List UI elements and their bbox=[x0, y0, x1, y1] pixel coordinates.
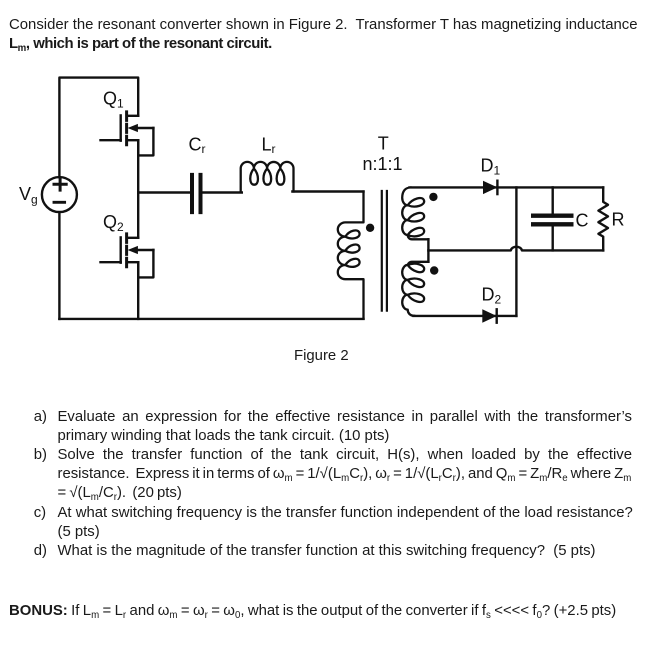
wire: top rail from Vg+ to Q1 drain bbox=[59, 78, 138, 178]
diode D1 bbox=[483, 181, 497, 194]
svg-text:R: R bbox=[612, 210, 625, 230]
transistor Q2 bbox=[101, 234, 154, 278]
transformer T primary winding bbox=[338, 192, 364, 319]
svg-text:T: T bbox=[378, 134, 389, 154]
wire: Q2 source to bottom rail bbox=[137, 262, 139, 319]
transistor Q1 bbox=[101, 112, 154, 155]
svg-text:D1: D1 bbox=[481, 155, 501, 177]
problem statement line 1 bbox=[9, 16, 638, 35]
capacitor Cr bbox=[192, 175, 201, 212]
item d bbox=[34, 542, 47, 561]
wire: bottom rail bbox=[59, 318, 363, 320]
problem statement line 2 bbox=[9, 35, 272, 54]
primary polarity dot bbox=[366, 224, 374, 232]
diode D2 bbox=[482, 309, 496, 322]
svg-text:Cr: Cr bbox=[189, 135, 206, 157]
item c bbox=[34, 504, 46, 523]
svg-text:Lr: Lr bbox=[262, 135, 276, 157]
figure caption bbox=[294, 347, 349, 366]
transformer secondary winding 2 (bottom) bbox=[402, 262, 428, 316]
wire: secondary 2 to D2 bbox=[414, 315, 517, 317]
secondary 1 polarity dot bbox=[429, 193, 437, 201]
wire: midpoint node to Cr bbox=[138, 191, 190, 193]
svg-text:Q1: Q1 bbox=[103, 88, 124, 110]
resistor R bbox=[598, 187, 608, 250]
transformer core bbox=[382, 191, 387, 311]
item a bbox=[34, 408, 47, 427]
svg-text:n:1:1: n:1:1 bbox=[363, 154, 403, 174]
wire: secondary spine / center tap junction bbox=[427, 239, 429, 261]
wire: top output rail (secondary 1 to D1 to output +) bbox=[410, 186, 604, 188]
bonus line bbox=[9, 602, 616, 621]
item b bbox=[34, 446, 47, 465]
svg-text:C: C bbox=[576, 210, 589, 230]
wire: Vg- down to bottom rail bbox=[58, 212, 60, 319]
inductor Lr bbox=[241, 162, 294, 192]
wire: center tap to output - (with hop over D2 wire) bbox=[428, 247, 603, 251]
secondary 2 polarity dot bbox=[430, 266, 438, 274]
transformer secondary winding 1 (top) bbox=[402, 187, 428, 239]
svg-text:Q2: Q2 bbox=[103, 212, 124, 234]
wire: D2 cathode up to output + bbox=[515, 187, 517, 316]
wire: Lr to transformer primary bbox=[292, 190, 363, 192]
capacitor C bbox=[552, 187, 554, 213]
svg-text:Vg: Vg bbox=[19, 184, 38, 206]
voltage source Vg bbox=[42, 177, 77, 212]
wire: Cr to Lr bbox=[203, 191, 242, 193]
svg-text:D2: D2 bbox=[482, 284, 502, 306]
wire: Q1 source to Q2 drain (midpoint leg) bbox=[137, 140, 139, 238]
